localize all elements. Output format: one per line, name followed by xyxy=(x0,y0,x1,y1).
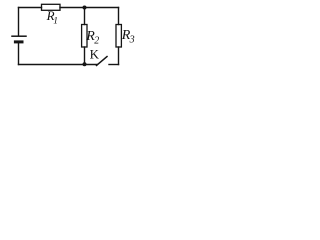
wire R2 branch lower xyxy=(84,47,86,65)
wire left side upper (corner to battery) xyxy=(18,8,20,36)
switch K lever xyxy=(97,57,108,66)
resistor R1 xyxy=(42,4,61,10)
wire bottom (left segment to switch) xyxy=(19,64,98,66)
wire battery to bottom-left corner xyxy=(18,43,20,64)
wire R1 to top-right corner xyxy=(60,7,119,9)
resistor R2 xyxy=(82,25,87,48)
svg-text:1: 1 xyxy=(53,16,58,26)
wire R2 branch upper xyxy=(84,8,86,25)
wire top-left to R1 xyxy=(19,7,42,9)
node junction top xyxy=(83,6,87,10)
svg-text:2: 2 xyxy=(94,35,99,46)
svg-text:3: 3 xyxy=(129,34,135,45)
battery long plate xyxy=(12,35,26,37)
battery short plate xyxy=(15,40,22,43)
wire bottom (switch to bottom-right corner) xyxy=(109,64,119,66)
wire R3 to bottom-right corner xyxy=(118,47,120,65)
resistor R3 xyxy=(116,25,121,48)
svg-text:K: K xyxy=(90,46,100,61)
wire right side upper (corner to R3) xyxy=(118,8,120,25)
node junction bottom xyxy=(83,62,87,66)
